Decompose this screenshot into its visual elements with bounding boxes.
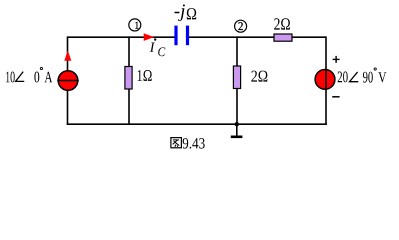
capacitor plate right: [186, 26, 189, 46]
wire node 2 vertical: [236, 36, 238, 125]
wire top left segment: [68, 36, 176, 38]
wire node 1 vertical: [128, 36, 130, 125]
wire left: [67, 36, 69, 125]
label 1 Ohm: [138, 70, 152, 81]
wire right: [325, 36, 327, 125]
ground junction dot: [235, 122, 239, 126]
caption text 9.43: [183, 138, 205, 149]
current source IS circle: [58, 71, 78, 91]
current arrow iC: [144, 33, 155, 41]
label 10 angle 0 deg A: [6, 67, 52, 82]
caption figure character tu: [171, 138, 182, 148]
node 2: [235, 20, 247, 32]
resistor R2 2 Ohm vertical: [233, 66, 240, 89]
label 2 Ohm vertical resistor: [251, 71, 267, 82]
label iC: [150, 38, 166, 56]
ground stem: [236, 124, 238, 136]
label 20 angle 90 deg V: [338, 68, 387, 83]
resistor R1 1 Ohm: [125, 67, 132, 90]
current source arrow: [64, 50, 71, 60]
capacitor plate left: [174, 26, 177, 46]
current source diameter line: [57, 80, 79, 82]
label minus j Ohm: [175, 4, 197, 21]
wire top right segment: [188, 36, 326, 38]
node 1: [129, 19, 141, 31]
voltage source US circle: [315, 70, 335, 90]
wire bottom: [67, 123, 327, 125]
resistor R3 2 Ohm horizontal: [274, 34, 292, 41]
ground bar: [231, 136, 243, 139]
plus sign: [333, 56, 340, 63]
minus sign: [332, 96, 339, 98]
label 2 Ohm horizontal resistor: [274, 18, 290, 29]
